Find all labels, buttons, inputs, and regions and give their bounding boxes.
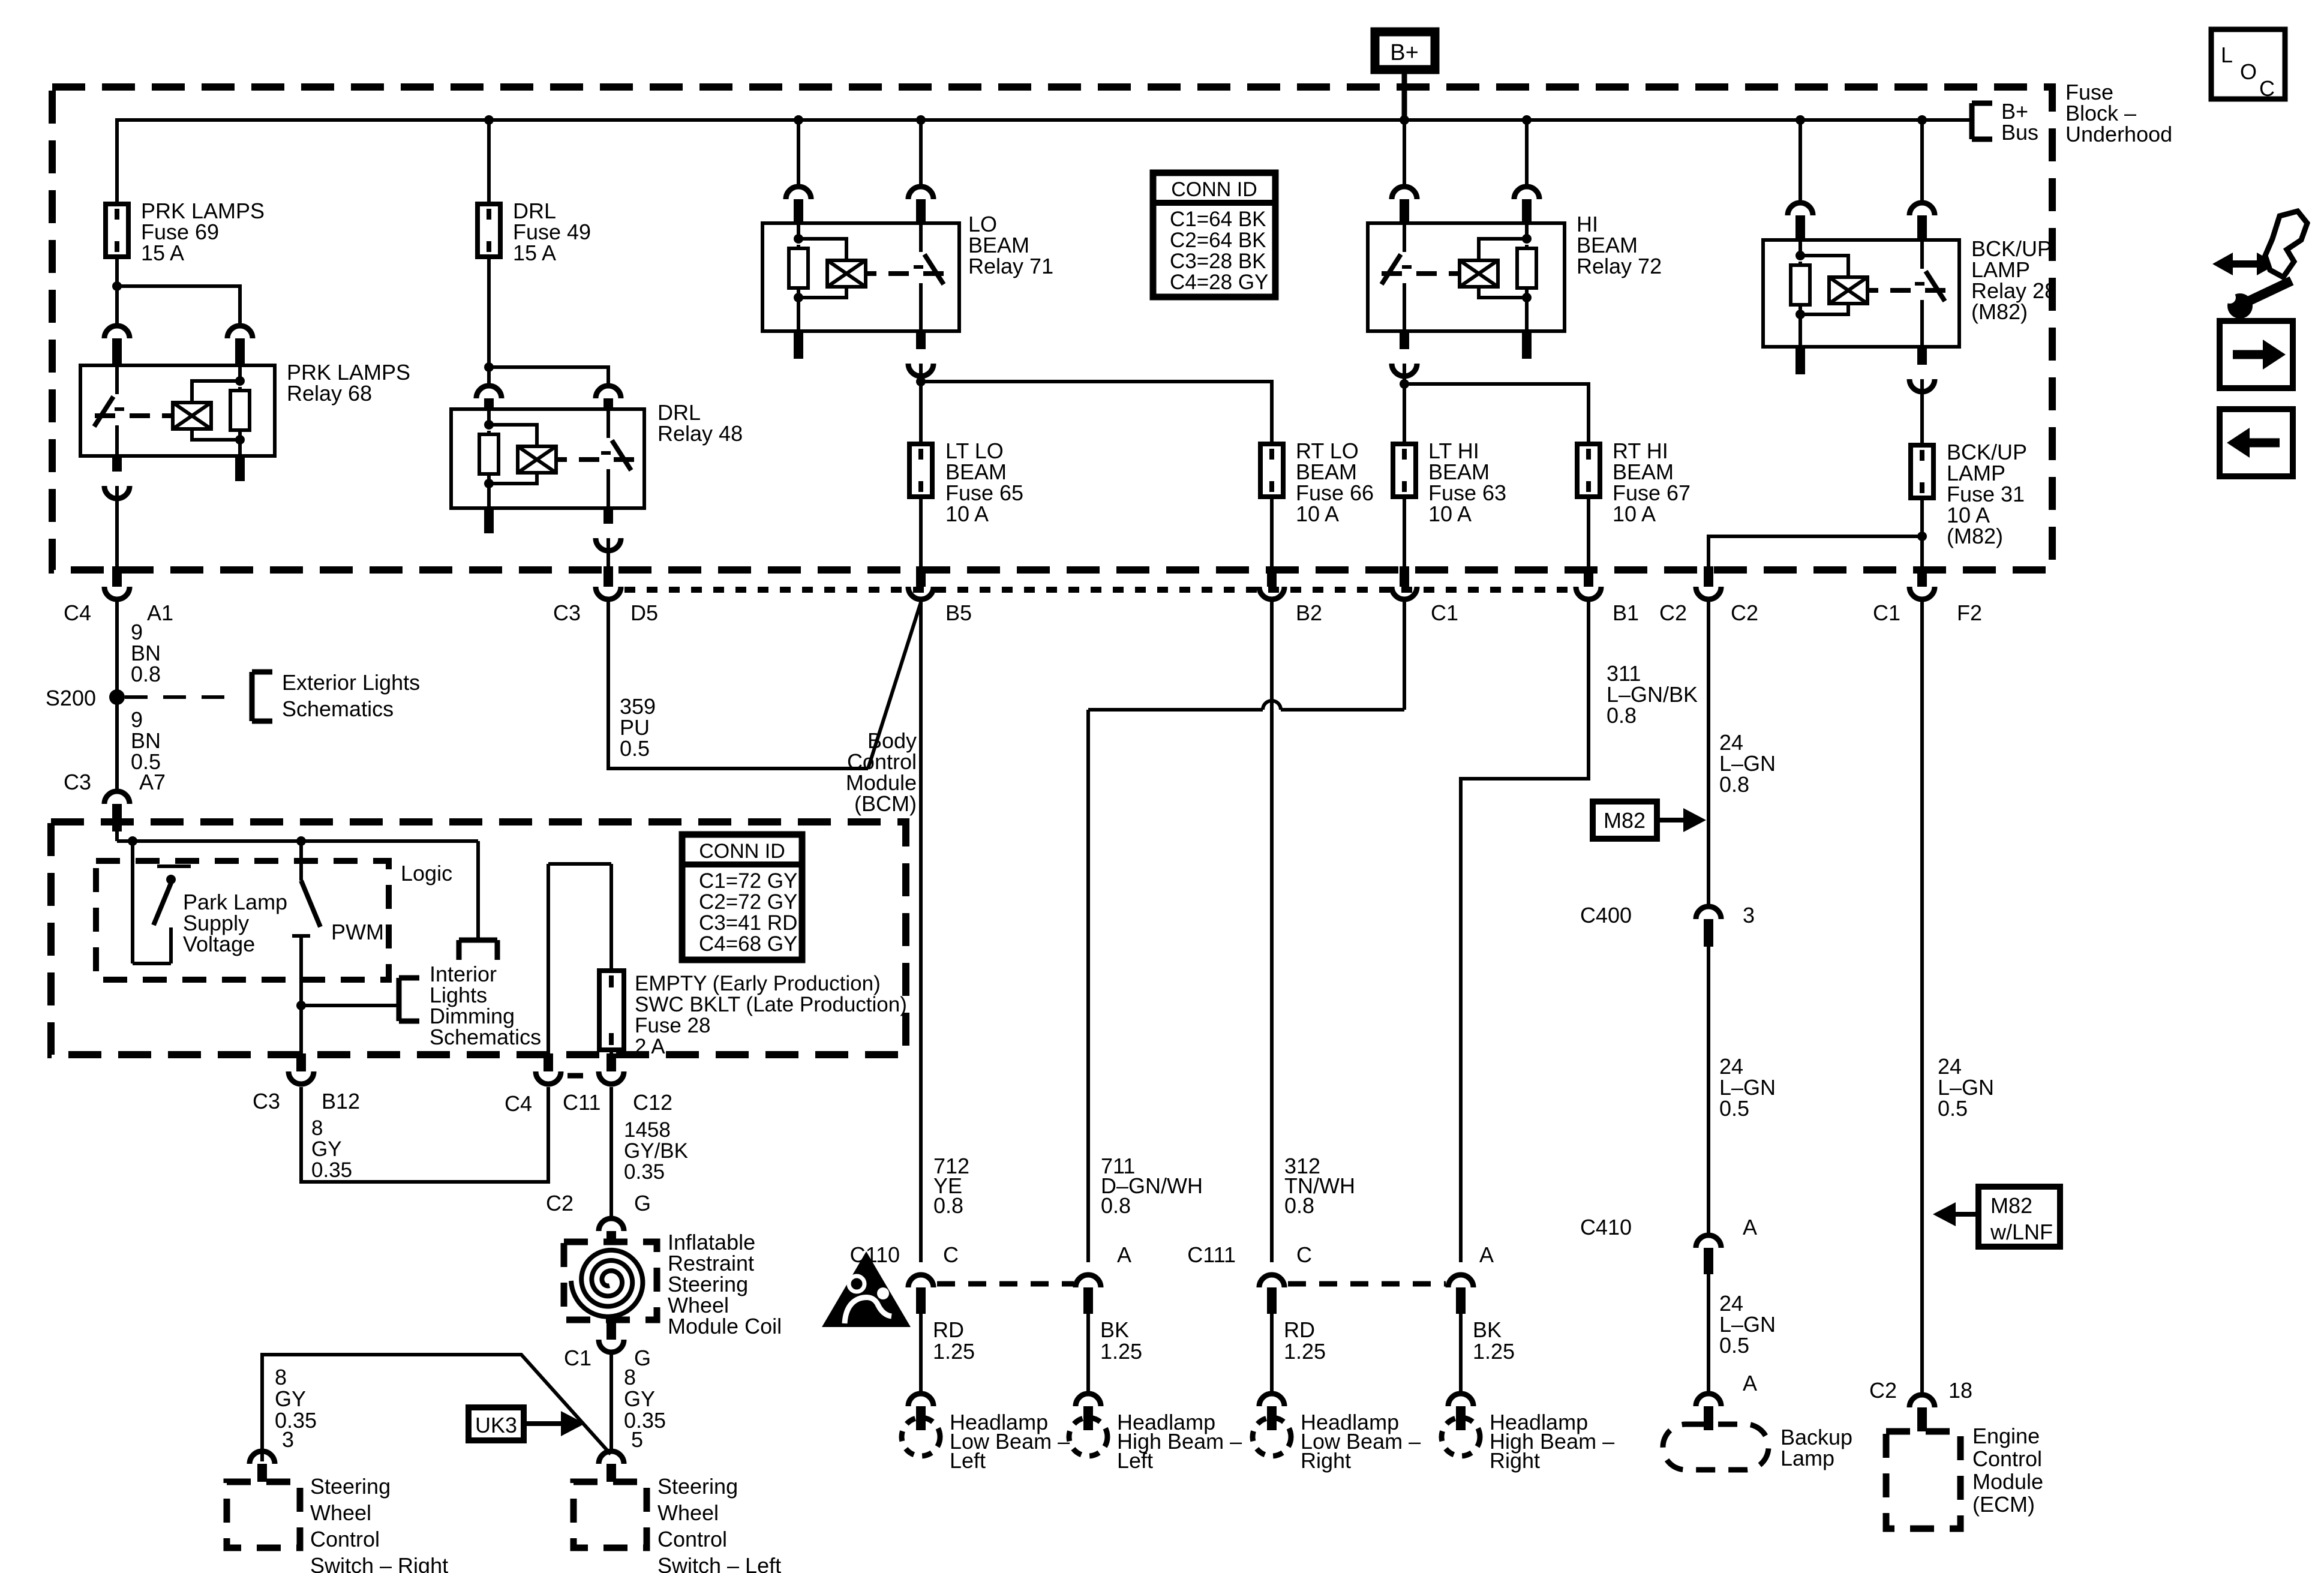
svg-text:C4=68 GY: C4=68 GY [699, 932, 797, 956]
svg-text:C3: C3 [253, 1089, 280, 1113]
svg-text:L: L [2221, 43, 2233, 67]
svg-text:C1=64 BK: C1=64 BK [1170, 208, 1266, 231]
svg-text:0.8: 0.8 [1719, 772, 1749, 797]
svg-text:Switch – Left: Switch – Left [657, 1553, 781, 1573]
svg-text:(M82): (M82) [1971, 299, 2028, 324]
svg-text:RD: RD [933, 1317, 964, 1342]
svg-text:0.5: 0.5 [1719, 1096, 1749, 1121]
svg-text:10 A: 10 A [1613, 502, 1656, 526]
svg-text:(ECM): (ECM) [1972, 1492, 2035, 1517]
svg-text:0.35: 0.35 [624, 1160, 665, 1184]
svg-text:Module Coil: Module Coil [668, 1314, 782, 1338]
svg-text:0.8: 0.8 [1607, 703, 1637, 728]
svg-text:Control: Control [1972, 1446, 2042, 1471]
svg-text:w/LNF: w/LNF [1990, 1220, 2053, 1244]
svg-text:Right: Right [1490, 1448, 1540, 1473]
svg-text:B+: B+ [1390, 40, 1419, 65]
svg-text:C2: C2 [546, 1191, 574, 1215]
svg-text:(M82): (M82) [1947, 524, 2003, 548]
svg-text:A: A [1117, 1242, 1131, 1267]
svg-text:SWC BKLT (Late Production): SWC BKLT (Late Production) [635, 993, 907, 1016]
svg-text:Relay 68: Relay 68 [287, 381, 372, 406]
svg-text:0.8: 0.8 [1284, 1193, 1314, 1218]
svg-text:10 A: 10 A [945, 502, 989, 526]
svg-text:C1: C1 [564, 1346, 591, 1370]
svg-text:Control: Control [310, 1527, 380, 1551]
svg-text:Left: Left [950, 1448, 986, 1473]
svg-text:Switch – Right: Switch – Right [310, 1553, 448, 1573]
svg-text:C110: C110 [850, 1242, 900, 1267]
svg-text:A1: A1 [147, 601, 173, 625]
svg-text:10 A: 10 A [1428, 502, 1472, 526]
svg-text:2 A: 2 A [635, 1035, 665, 1058]
svg-text:C4: C4 [505, 1091, 532, 1116]
svg-text:1.25: 1.25 [1284, 1339, 1326, 1364]
svg-text:Bus: Bus [2001, 120, 2038, 145]
svg-text:Module: Module [1972, 1469, 2043, 1494]
svg-text:8: 8 [275, 1365, 287, 1389]
svg-text:RD: RD [1284, 1317, 1315, 1342]
svg-text:B12: B12 [322, 1089, 360, 1113]
svg-text:PWM: PWM [331, 920, 384, 944]
svg-text:C1: C1 [1431, 601, 1458, 625]
svg-text:S200: S200 [46, 686, 96, 710]
svg-text:0.35: 0.35 [275, 1408, 317, 1433]
svg-text:A: A [1743, 1215, 1757, 1239]
svg-text:F2: F2 [1957, 601, 1982, 625]
svg-text:CONN ID: CONN ID [699, 840, 785, 863]
svg-text:Wheel: Wheel [657, 1500, 719, 1525]
svg-text:15 A: 15 A [141, 241, 184, 265]
svg-text:3: 3 [282, 1427, 294, 1452]
svg-text:(BCM): (BCM) [854, 791, 917, 816]
svg-text:GY/BK: GY/BK [624, 1139, 688, 1163]
svg-text:Lamp: Lamp [1780, 1446, 1834, 1470]
svg-text:GY: GY [624, 1386, 655, 1411]
svg-text:Logic: Logic [401, 861, 452, 885]
svg-text:M82: M82 [1604, 808, 1646, 833]
svg-text:C4=28 GY: C4=28 GY [1170, 271, 1268, 294]
svg-text:C2: C2 [1731, 601, 1758, 625]
svg-text:0.5: 0.5 [1719, 1333, 1749, 1358]
svg-text:C111: C111 [1187, 1242, 1236, 1267]
svg-text:C2: C2 [1659, 601, 1687, 625]
svg-text:GY: GY [311, 1137, 342, 1161]
svg-text:Schematics: Schematics [430, 1025, 541, 1049]
svg-text:3: 3 [1743, 903, 1755, 927]
svg-text:8: 8 [311, 1116, 323, 1140]
svg-text:A7: A7 [139, 770, 166, 794]
svg-text:O: O [2240, 59, 2257, 84]
svg-text:Fuse 28: Fuse 28 [635, 1014, 710, 1037]
svg-text:G: G [634, 1346, 651, 1370]
svg-text:10 A: 10 A [1296, 502, 1339, 526]
svg-text:C3: C3 [64, 770, 91, 794]
svg-text:Steering: Steering [310, 1474, 391, 1499]
svg-text:C11: C11 [563, 1090, 600, 1115]
svg-text:B5: B5 [945, 601, 972, 625]
svg-text:Voltage: Voltage [183, 932, 255, 956]
svg-text:C3=41 RD: C3=41 RD [699, 911, 797, 935]
svg-text:C3: C3 [553, 601, 581, 625]
svg-text:M82: M82 [1990, 1193, 2032, 1218]
svg-text:C1=72 GY: C1=72 GY [699, 869, 797, 893]
svg-text:C2: C2 [1869, 1378, 1897, 1403]
svg-text:UK3: UK3 [475, 1413, 517, 1437]
svg-text:Relay 72: Relay 72 [1577, 254, 1662, 278]
svg-text:C: C [2259, 76, 2275, 101]
svg-text:D5: D5 [630, 601, 658, 625]
svg-text:Steering: Steering [657, 1474, 738, 1499]
svg-text:0.35: 0.35 [311, 1158, 352, 1182]
svg-text:C2=64 BK: C2=64 BK [1170, 229, 1266, 252]
svg-text:0.35: 0.35 [624, 1408, 666, 1433]
svg-text:0.8: 0.8 [933, 1193, 963, 1218]
svg-text:0.8: 0.8 [131, 662, 161, 686]
svg-text:BK: BK [1473, 1317, 1502, 1342]
svg-text:C1: C1 [1873, 601, 1900, 625]
svg-text:A: A [1479, 1242, 1494, 1267]
svg-text:15 A: 15 A [513, 241, 556, 265]
svg-text:C3=28 BK: C3=28 BK [1170, 250, 1266, 273]
svg-text:Underhood: Underhood [2065, 122, 2172, 146]
svg-text:Relay 71: Relay 71 [968, 254, 1053, 278]
svg-text:G: G [634, 1191, 651, 1215]
svg-text:C12: C12 [633, 1090, 672, 1115]
svg-text:0.8: 0.8 [1101, 1193, 1131, 1218]
svg-text:1458: 1458 [624, 1118, 671, 1142]
svg-text:0.5: 0.5 [1938, 1096, 1968, 1121]
svg-text:C: C [1296, 1242, 1312, 1267]
svg-text:Wheel: Wheel [310, 1500, 371, 1525]
svg-text:C: C [943, 1242, 959, 1267]
svg-text:1.25: 1.25 [1100, 1339, 1142, 1364]
svg-text:Engine: Engine [1972, 1424, 2040, 1448]
svg-text:Right: Right [1301, 1448, 1351, 1473]
svg-text:Relay 48: Relay 48 [657, 421, 743, 446]
svg-text:0.5: 0.5 [620, 736, 650, 761]
svg-text:GY: GY [275, 1386, 306, 1411]
svg-text:Schematics: Schematics [282, 697, 394, 721]
svg-text:B2: B2 [1296, 601, 1322, 625]
svg-text:BK: BK [1100, 1317, 1129, 1342]
svg-text:5: 5 [631, 1427, 643, 1452]
svg-text:C400: C400 [1580, 903, 1632, 927]
svg-text:8: 8 [624, 1365, 636, 1389]
svg-text:CONN ID: CONN ID [1171, 178, 1257, 201]
svg-text:C2=72 GY: C2=72 GY [699, 890, 797, 914]
svg-text:1.25: 1.25 [1473, 1339, 1515, 1364]
svg-text:1.25: 1.25 [933, 1339, 975, 1364]
svg-text:Exterior Lights: Exterior Lights [282, 670, 420, 695]
svg-text:A: A [1743, 1371, 1757, 1395]
svg-text:B1: B1 [1613, 601, 1639, 625]
svg-text:Control: Control [657, 1527, 727, 1551]
svg-text:18: 18 [1948, 1378, 1972, 1403]
svg-text:C410: C410 [1580, 1215, 1632, 1239]
svg-text:EMPTY (Early Production): EMPTY (Early Production) [635, 972, 881, 995]
svg-text:Left: Left [1117, 1448, 1153, 1473]
svg-text:C4: C4 [64, 601, 91, 625]
